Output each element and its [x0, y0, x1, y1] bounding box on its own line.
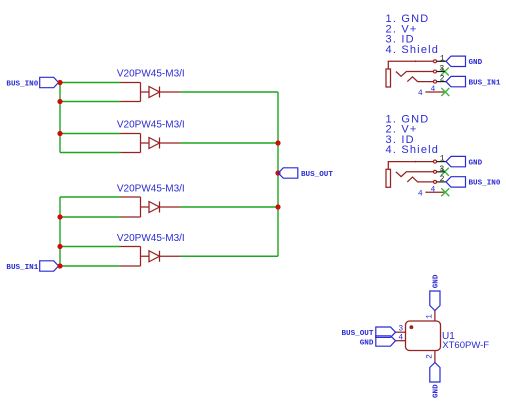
svg-text:GND: GND: [433, 384, 441, 398]
svg-text:4: 4: [418, 89, 423, 98]
U1 pin 2: [425, 351, 435, 363]
connector 2 no-connect pin 3: [441, 168, 449, 176]
wire - cathode of diode 2 to output bus: [180, 142, 278, 144]
connector 2 pin 2 contact: [407, 175, 446, 184]
wire - anode bottom row diode 3: [60, 216, 121, 218]
pin list text connector 2: [386, 113, 440, 156]
svg-text:V20PW45-M3/I: V20PW45-M3/I: [117, 69, 185, 80]
wire - cathode of diode 3 to output bus: [180, 206, 278, 208]
audio jack connector 2 body: [386, 161, 433, 188]
hierarchical label BUS_IN0: [6, 77, 58, 88]
svg-text:4. Shield: 4. Shield: [386, 144, 440, 156]
svg-text:V20PW45-M3/I: V20PW45-M3/I: [117, 233, 185, 244]
wire - anode bottom row diode 4: [60, 265, 121, 267]
junction: [57, 131, 62, 136]
hierarchical label GND (top): [430, 274, 441, 310]
wire - left vertical bus from BUS_IN0: [59, 83, 61, 153]
svg-text:V20PW45-M3/I: V20PW45-M3/I: [117, 120, 185, 131]
svg-text:4: 4: [430, 185, 435, 194]
connector 2 pin 4 sleeve: [418, 185, 444, 198]
wire - anode top row diode 4: [60, 246, 121, 248]
wire - anode top row diode 3: [60, 196, 121, 198]
svg-text:1: 1: [440, 54, 445, 63]
wire - anode top row diode 1: [60, 82, 121, 84]
wire - anode bottom row diode 1: [60, 101, 121, 103]
hierarchical label BUS_IN0: [446, 177, 501, 188]
svg-text:BUS_OUT: BUS_OUT: [301, 171, 333, 179]
svg-text:3: 3: [439, 165, 444, 174]
svg-text:4. Shield: 4. Shield: [386, 44, 440, 56]
svg-text:1: 1: [440, 155, 445, 164]
connector 1 no-connect pin 4: [441, 88, 449, 96]
svg-text:GND: GND: [360, 339, 374, 347]
connector 2 pin 1: [434, 155, 447, 164]
wire - anode top row diode 2: [60, 133, 121, 135]
hierarchical label BUS_IN1: [446, 76, 501, 87]
hierarchical label GND: [446, 56, 483, 67]
svg-text:GND: GND: [433, 274, 441, 288]
svg-text:4: 4: [418, 189, 423, 198]
svg-text:BUS_IN1: BUS_IN1: [6, 264, 38, 272]
svg-text:GND: GND: [469, 159, 483, 167]
wire - cathode of diode 4 to output bus: [180, 255, 278, 257]
diode D4 V20PW45-M3/I: [117, 233, 185, 266]
connector 1 pin 2 contact: [407, 75, 446, 84]
diode D3 V20PW45-M3/I: [117, 184, 185, 218]
svg-text:BUS_OUT: BUS_OUT: [341, 330, 373, 338]
junction: [57, 99, 62, 104]
svg-text:XT60PW-F: XT60PW-F: [442, 340, 489, 351]
hierarchical label GND (to U1 pin 4): [360, 336, 396, 348]
wire - anode bottom row diode 2: [60, 152, 121, 154]
svg-text:GND: GND: [469, 59, 483, 67]
junction: [57, 244, 62, 249]
connector 1 no-connect pin 3: [441, 68, 449, 76]
hierarchical label GND: [446, 156, 483, 167]
svg-text:3: 3: [398, 325, 403, 334]
svg-text:4: 4: [398, 334, 403, 343]
connector 2 no-connect pin 4: [441, 188, 449, 196]
svg-text:2: 2: [440, 175, 445, 184]
svg-text:2: 2: [440, 75, 445, 84]
svg-text:BUS_IN1: BUS_IN1: [469, 79, 501, 87]
junction: [275, 204, 280, 209]
hierarchical label BUS_IN1: [6, 261, 58, 272]
svg-text:1: 1: [425, 314, 434, 319]
connector 1 pin 1: [434, 54, 447, 63]
diode D2 V20PW45-M3/I: [117, 120, 185, 153]
svg-text:2: 2: [425, 354, 434, 359]
junction: [275, 140, 280, 145]
wire - cathode of diode 1 to output bus: [180, 91, 278, 93]
hierarchical label BUS_OUT (to U1): [341, 327, 395, 338]
svg-text:3: 3: [439, 65, 444, 74]
junction: [57, 80, 62, 85]
hierarchical label BUS_OUT: [278, 168, 333, 179]
U1 pin 1: [425, 311, 435, 322]
connector 1 pin 4 sleeve: [418, 85, 444, 98]
diode D1 V20PW45-M3/I: [117, 69, 185, 102]
hierarchical label GND (bottom): [430, 363, 441, 399]
wire - right vertical output bus: [277, 92, 279, 256]
connector U1 XT60PW-F body: [406, 321, 490, 351]
junction: [57, 263, 62, 268]
connector 2 pin 3 contact: [396, 165, 445, 177]
junction: [57, 214, 62, 219]
svg-text:V20PW45-M3/I: V20PW45-M3/I: [117, 184, 185, 195]
audio jack connector 1 body: [386, 60, 433, 87]
wire - left vertical bus from BUS_IN1: [59, 197, 61, 266]
U1 pin 4: [396, 334, 406, 343]
svg-text:BUS_IN0: BUS_IN0: [6, 80, 38, 88]
U1 pin 3: [396, 325, 406, 334]
pin list text connector 1: [386, 13, 440, 56]
connector 1 pin 3 contact: [396, 65, 445, 77]
svg-text:4: 4: [430, 85, 435, 94]
junction: [275, 170, 280, 175]
svg-text:BUS_IN0: BUS_IN0: [469, 180, 501, 188]
